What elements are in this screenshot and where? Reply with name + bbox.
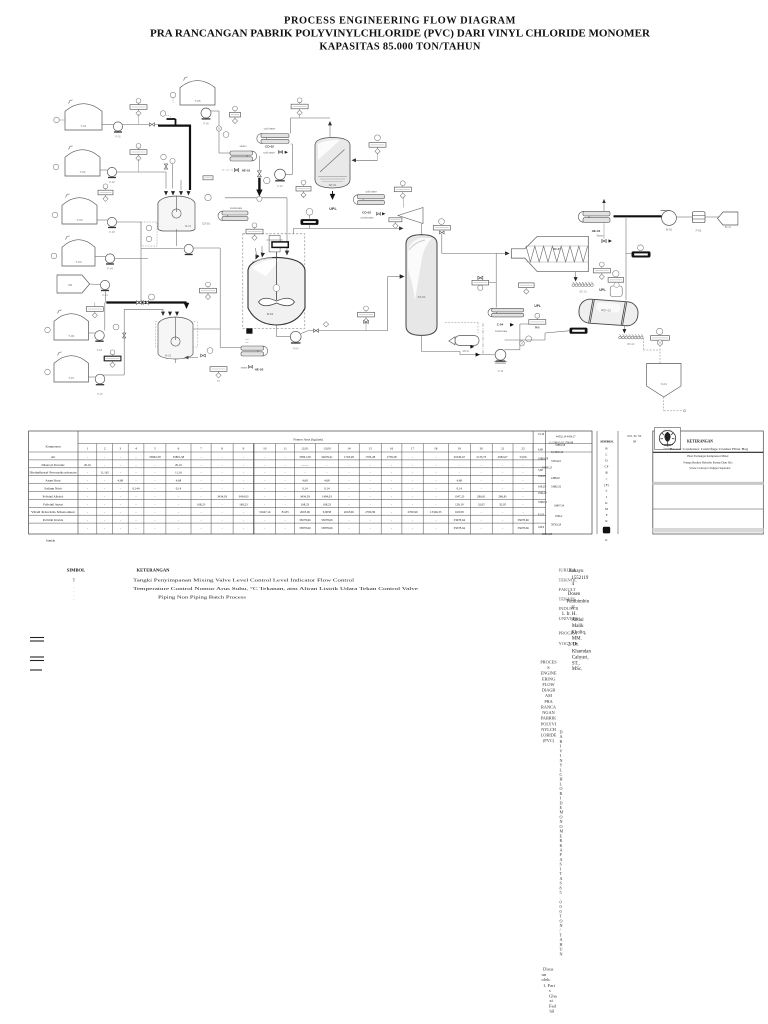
SC-01 discharge [575, 272, 577, 279]
svg-text:33678,66: 33678,66 [517, 518, 529, 523]
svg-text:T-01: T-01 [80, 124, 86, 128]
wire down to CO-01 [218, 111, 220, 153]
svg-text:-: - [391, 526, 392, 530]
mixer M-02 [158, 317, 193, 359]
svg-text:-: - [201, 526, 202, 530]
svg-text:2618,96: 2618,96 [300, 510, 310, 515]
svg-text:-: - [285, 471, 286, 475]
svg-text:-: - [120, 510, 121, 514]
svg-text:-: - [264, 518, 265, 522]
svg-text:-: - [87, 455, 88, 459]
wire to pill CF-02 [626, 252, 632, 254]
wire P-05 discharge [211, 110, 219, 112]
agitator drive R-01 [269, 236, 280, 252]
bold line into M-01 [189, 125, 191, 191]
interlock dashed box [141, 222, 157, 246]
svg-text:-: - [370, 479, 371, 483]
svg-text:-: - [391, 502, 392, 506]
svg-text:-: - [502, 463, 503, 467]
svg-text:15: 15 [369, 447, 373, 451]
wire P-03 discharge [117, 221, 141, 223]
tank T-03 [62, 194, 97, 224]
mixer M-01 [157, 203, 159, 229]
svg-text:Steam: Steam [597, 235, 604, 238]
svg-text:33234,01: 33234,01 [551, 460, 562, 463]
wire T-03 riser lower [140, 249, 142, 302]
pump P-05 [201, 108, 211, 126]
svg-text:96094,09: 96094,09 [542, 533, 553, 536]
wire T-04 to P-04 [95, 256, 105, 258]
svg-text:KAPASITAS 85.000 TON/TAHUN: KAPASITAS 85.000 TON/TAHUN [319, 42, 480, 53]
svg-text:-: - [370, 487, 371, 491]
svg-text:MM.: MM. [572, 637, 582, 642]
wire P-04 discharge [115, 258, 148, 260]
dashed to elevator [643, 349, 660, 351]
feeder pill CF-02 [632, 252, 650, 257]
svg-text:23,16: 23,16 [538, 433, 545, 436]
wire corner to jacket [293, 228, 295, 233]
svg-text:Jumlah: Jumlah [46, 539, 56, 543]
tank T-07 [54, 352, 89, 382]
svg-text:Screw Conveyor Stripper Separa: Screw Conveyor Stripper Separator [689, 466, 730, 470]
svg-text:-: - [178, 518, 179, 522]
svg-text:-: - [154, 487, 155, 491]
svg-text:20,16: 20,16 [175, 463, 182, 468]
valve ST top [440, 231, 445, 234]
plate LI mid [200, 282, 217, 300]
svg-text:0,14: 0,14 [302, 487, 308, 492]
wire riser2 to M-01 [172, 164, 174, 189]
riser to CO-04 [495, 253, 497, 307]
svg-text:-: - [481, 471, 482, 475]
svg-text:AB: AB [68, 283, 72, 287]
ST-01 bottoms line [421, 335, 423, 351]
svg-text:K: K [605, 501, 608, 505]
pump P-07 [95, 374, 105, 396]
svg-text:NGAN: NGAN [542, 710, 554, 715]
wire into pill SC-03 [545, 331, 570, 333]
svg-text:6: 6 [178, 447, 180, 451]
svg-text:-: - [201, 487, 202, 491]
svg-text:UPL: UPL [534, 304, 540, 308]
svg-text:(PVC): (PVC) [543, 738, 555, 743]
instrument bubble ST top [439, 219, 445, 225]
bottoms to P-11 [460, 354, 495, 356]
feed into ST-01 [388, 276, 402, 278]
valve HE-01 [234, 169, 238, 172]
level instrument T-01 [54, 117, 60, 123]
bold VCM feed line [258, 178, 260, 190]
svg-text:1404,03: 1404,03 [322, 494, 332, 499]
wire P-01 to valve [123, 124, 159, 126]
wire down from ST top valve [441, 234, 443, 253]
bubble on P-05 riser [223, 132, 229, 138]
solid arrow bottoms [476, 353, 480, 357]
signal T-05 [172, 98, 174, 103]
svg-text:4: 4 [135, 447, 137, 451]
svg-text:286,81: 286,81 [498, 494, 507, 499]
valve HE-03 [248, 365, 252, 368]
svg-text:-: - [87, 510, 88, 514]
svg-text:-: - [502, 471, 503, 475]
heat exchanger HE-03 [241, 346, 268, 356]
dashed into silo [659, 345, 661, 363]
svg-text:-: - [136, 526, 137, 530]
svg-text:-: - [178, 502, 179, 506]
svg-text:-: - [243, 455, 244, 459]
svg-text:-: - [154, 502, 155, 506]
wire into SP-01 [353, 159, 378, 161]
svg-text:-: - [523, 479, 524, 483]
wire B-01 to F-01 [676, 216, 692, 218]
svg-text:Kholiq,: Kholiq, [571, 631, 586, 636]
svg-text:I: I [606, 495, 607, 499]
keterangan box [653, 431, 764, 534]
plate below SC-01 [519, 283, 535, 294]
pump P-06 [95, 331, 105, 352]
svg-text:ERING: ERING [542, 676, 555, 681]
svg-text:-: - [136, 502, 137, 506]
svg-text:D: D [605, 459, 608, 463]
svg-text:-: - [370, 494, 371, 498]
svg-text:K: K [605, 538, 608, 542]
svg-text:-: - [523, 463, 524, 467]
svg-text:-: - [326, 471, 327, 475]
svg-text:C: C [605, 453, 608, 457]
svg-text:wtr: wtr [246, 341, 249, 344]
wire down into CO-02 [290, 118, 292, 134]
svg-text:-: - [435, 518, 436, 522]
wire header down to R-01 [286, 198, 288, 252]
svg-text:2. Dr.: 2. Dr. [568, 643, 579, 648]
wire down to P-09 [291, 144, 293, 175]
arrow into M-02 at x163 [161, 312, 165, 316]
svg-text:-: - [87, 479, 88, 483]
svg-text:81,83: 81,83 [282, 510, 289, 515]
svg-text:RB-01: RB-01 [463, 350, 470, 353]
svg-text:1: 1 [87, 447, 89, 451]
svg-text:-: - [154, 526, 155, 530]
svg-text:N: N [560, 951, 563, 956]
arrow into SC-01 [505, 251, 509, 255]
svg-text:18647,34: 18647,34 [554, 504, 565, 507]
svg-text:Vinil Klorida Monomer: Vinil Klorida Monomer [31, 510, 75, 514]
svg-text:-: - [104, 487, 105, 491]
instrument above pill [306, 208, 313, 215]
svg-text:-: - [285, 494, 286, 498]
svg-text:condensate: condensate [230, 207, 243, 210]
svg-text:-: - [120, 471, 121, 475]
svg-text:3434,03: 3434,03 [238, 494, 248, 499]
silo S-01 [647, 364, 682, 398]
svg-text:-: - [178, 526, 179, 530]
svg-text:Diethylhexyl Peroxydicarbonate: Diethylhexyl Peroxydicarbonate [30, 471, 78, 475]
wire arrow b [261, 246, 263, 254]
svg-text:-: - [243, 463, 244, 467]
svg-text:22: 22 [521, 447, 525, 451]
plate valve cluster mid [472, 280, 489, 285]
svg-text:-: - [136, 479, 137, 483]
svg-text:DIAGR: DIAGR [542, 688, 556, 693]
svg-text:0,0018: 0,0018 [455, 510, 464, 515]
svg-text:◎: ◎ [605, 471, 608, 475]
svg-text:-: - [104, 494, 105, 498]
svg-text:-: - [348, 494, 349, 498]
vapour line R-01 to ejector [294, 227, 403, 229]
svg-text:20: 20 [480, 447, 484, 451]
svg-text:HE-01: HE-01 [242, 168, 251, 172]
svg-text:S: S [547, 665, 550, 670]
level instrument T-02 [53, 164, 59, 170]
svg-text:Bidun Ulut: Bidun Ulut [664, 429, 672, 432]
svg-text:-: - [120, 494, 121, 498]
svg-text:AM: AM [545, 693, 552, 698]
svg-text:-: - [523, 502, 524, 506]
svg-text:-: - [222, 479, 223, 483]
svg-text:-: - [120, 502, 121, 506]
svg-text:-: - [154, 494, 155, 498]
plate LIC ST-01 [358, 306, 375, 324]
arrow into R-01 a [254, 254, 260, 260]
svg-text:POLYVI: POLYVI [541, 721, 557, 726]
level instrument T-05 [170, 92, 176, 98]
vent instrument M-01 [205, 194, 211, 200]
valve T-02 riser [164, 164, 167, 169]
bold arrow into M-02 [184, 303, 190, 309]
svg-text:-: - [435, 487, 436, 491]
svg-text:-: - [136, 455, 137, 459]
svg-text:-: - [243, 510, 244, 514]
heat exchanger CO-03 [353, 195, 384, 215]
heat exchanger CO-01 [218, 211, 248, 221]
svg-text:-: - [523, 494, 524, 498]
svg-text:-: - [201, 479, 202, 483]
CP-01 riser [105, 291, 107, 303]
control valve VCM [257, 171, 261, 177]
wire to plate PI/A [520, 323, 529, 325]
plate stem [94, 303, 96, 307]
svg-text:condensate: condensate [495, 330, 508, 333]
svg-text:HE-03: HE-03 [255, 368, 264, 372]
svg-text:-: - [481, 518, 482, 522]
svg-text:35078,64: 35078,64 [454, 526, 466, 531]
liquid level SP-01 [318, 176, 347, 178]
diagonal inside SP-01 [320, 150, 345, 173]
svg-text:-: - [120, 487, 121, 491]
svg-text:-: - [412, 471, 413, 475]
P-06 riser to bold line [104, 303, 106, 331]
arrow CO-03 out [382, 212, 386, 215]
svg-text:-: - [435, 479, 436, 483]
dashed box around M-02 [155, 322, 197, 347]
svg-text:-: - [391, 479, 392, 483]
svg-text:-: - [326, 463, 327, 467]
svg-text:-: - [87, 518, 88, 522]
svg-text:-: - [87, 502, 88, 506]
svg-text:1. Ir. H.: 1. Ir. H. [562, 612, 577, 617]
svg-text:-: - [348, 463, 349, 467]
wire dryer feed riser [544, 333, 546, 340]
pump P-02 [107, 167, 116, 184]
svg-text:-: - [264, 455, 265, 459]
svg-text:BF-01: BF-01 [725, 226, 732, 229]
tank T-01 [65, 100, 102, 130]
svg-text:-: - [201, 455, 202, 459]
svg-text:B-01: B-01 [666, 228, 672, 232]
wire T-03 riser [140, 222, 142, 249]
transfer line to ST-01 [308, 330, 388, 332]
arrow up SP-01 vent [328, 121, 332, 125]
svg-text:168,23: 168,23 [538, 486, 546, 489]
reboiler RB-01 [455, 336, 479, 346]
svg-text:Komponen: Komponen [45, 445, 60, 449]
svg-text:-: - [523, 487, 524, 491]
svg-text:Dosen: Dosen [568, 592, 581, 597]
pump P-08 [184, 244, 193, 254]
valve cluster mid [478, 276, 483, 279]
wire plate FI-02 stem [138, 159, 140, 172]
svg-text:-: - [87, 487, 88, 491]
valve circle elevator [657, 340, 662, 345]
svg-text:2135,73: 2135,73 [476, 455, 486, 460]
svg-text:-: - [104, 463, 105, 467]
signal to HE-01 valve [222, 169, 233, 171]
svg-text:Polivinil Klorida: Polivinil Klorida [43, 518, 64, 522]
small tank near BC-01 [610, 286, 622, 297]
bold feed drop [185, 303, 187, 306]
wire cluster to riser [489, 282, 497, 284]
plate near BC-01 [593, 262, 610, 280]
svg-text:-: - [502, 518, 503, 522]
svg-text:P-07: P-07 [97, 392, 103, 396]
batch jog horizontal [167, 118, 176, 120]
svg-text:Polivinil Asetat: Polivinil Asetat [43, 502, 63, 506]
arrow into BC-01 [574, 277, 578, 281]
svg-text:0,0038: 0,0038 [323, 510, 332, 515]
svg-text:CO-03: CO-03 [362, 211, 371, 215]
svg-text:4,68: 4,68 [538, 449, 543, 452]
svg-text:-: - [304, 471, 305, 475]
svg-text:2594,2: 2594,2 [555, 515, 563, 518]
pump P-11 [495, 349, 506, 373]
svg-text:-: - [459, 463, 460, 467]
svg-text:○: ○ [606, 477, 608, 481]
svg-text:P-01: P-01 [115, 135, 121, 139]
svg-text:hil: hil [550, 1009, 556, 1014]
svg-text:-: - [391, 494, 392, 498]
svg-text:condensate: condensate [361, 217, 375, 220]
svg-text:g:: g: [571, 605, 575, 610]
plate PI/A [529, 313, 546, 324]
svg-text:T-05: T-05 [194, 99, 200, 103]
plate PIC reactor right [296, 180, 311, 198]
svg-text:-: - [222, 518, 223, 522]
arrow into M-02 at x177 [175, 312, 179, 316]
pump P-10 [290, 331, 301, 350]
hopper AB-01 [57, 275, 90, 293]
svg-text:-: - [391, 487, 392, 491]
hot air down to RD-01 [625, 218, 627, 300]
svg-text:58763,29: 58763,29 [551, 523, 562, 526]
svg-text:33682,32: 33682,32 [551, 486, 562, 489]
valve M-02 drain [201, 354, 206, 357]
svg-text:-: - [243, 487, 244, 491]
arrow into M-01 at x173 [171, 191, 175, 195]
svg-text:-: - [412, 487, 413, 491]
plate FIC T-07 [104, 350, 121, 368]
svg-text:SP-01: SP-01 [329, 183, 337, 187]
pump CP-01 [100, 280, 109, 297]
dashed BC-02 out [642, 338, 644, 350]
svg-text:-: - [222, 471, 223, 475]
wire HE-01 to valve [258, 156, 260, 170]
svg-text:-: - [104, 502, 105, 506]
stem LIC [365, 324, 367, 331]
svg-text:-: - [201, 518, 202, 522]
svg-text:C-04: C-04 [497, 323, 504, 327]
svg-text:-: - [435, 502, 436, 506]
wire T-03 to P-03 [97, 219, 107, 221]
svg-text:-: - [523, 510, 524, 514]
svg-text:P-03: P-03 [109, 230, 115, 234]
svg-text:-: - [87, 526, 88, 530]
svg-text:-: - [412, 463, 413, 467]
svg-text:Asam Sitrat: Asam Sitrat [45, 479, 60, 483]
instrument SP-01 right [375, 135, 381, 141]
svg-text:T-04: T-04 [75, 260, 81, 264]
svg-text:MSc.: MSc. [572, 667, 582, 672]
stripper column ST-01 [406, 235, 437, 336]
svg-text:10: 10 [263, 447, 267, 451]
filter F-01 [692, 212, 705, 223]
instrument bubble near valve T-01 [160, 111, 166, 117]
ejector JE-01 [398, 208, 423, 224]
valve below plate LIC [364, 320, 369, 323]
wire plate to line [138, 114, 140, 125]
svg-text:-: - [285, 479, 286, 483]
wire ejector to ST-01 [421, 224, 423, 235]
arrow into BC-02 [622, 329, 626, 333]
level instrument T-07 [45, 369, 51, 375]
arrow into R-01 b [260, 252, 265, 258]
plate PI ejector [394, 181, 411, 199]
svg-text:1347,23: 1347,23 [454, 494, 464, 499]
level instrument T-03 [52, 212, 58, 218]
svg-text:-: - [502, 510, 503, 514]
pill stem [309, 215, 311, 219]
wire P-08 discharge [193, 247, 220, 249]
svg-text:-: - [435, 471, 436, 475]
svg-text:14: 14 [347, 447, 351, 451]
mass balance table [29, 428, 764, 543]
svg-text:-: - [222, 510, 223, 514]
plate elevator [651, 336, 670, 341]
svg-text:-: - [502, 487, 503, 491]
wire instrument to T-01 [59, 119, 65, 121]
svg-text:-: - [481, 526, 482, 530]
LC stem [377, 153, 379, 160]
svg-text:-: - [178, 494, 179, 498]
svg-text:TC: TC [217, 380, 220, 383]
svg-text:2700,99: 2700,99 [408, 510, 418, 515]
svg-text:T: T [73, 578, 76, 582]
instrument bubble riser a [526, 336, 532, 342]
svg-text:13346,33: 13346,33 [430, 510, 442, 515]
svg-text:-: - [154, 479, 155, 483]
valve bubble on header [257, 196, 262, 201]
svg-text:-: - [370, 463, 371, 467]
svg-text:-: - [370, 502, 371, 506]
